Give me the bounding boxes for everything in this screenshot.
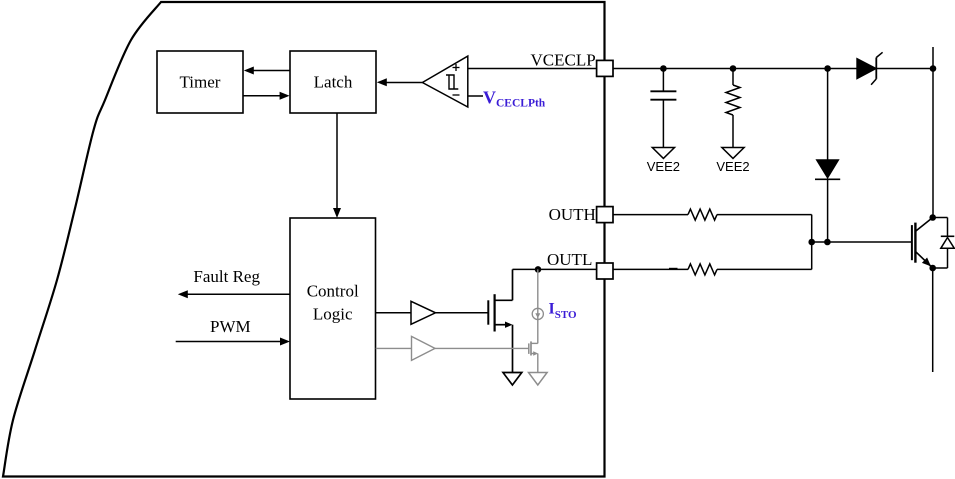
- svg-text:Control: Control: [307, 282, 359, 301]
- svg-text:PWM: PWM: [210, 317, 251, 336]
- svg-text:OUTH: OUTH: [549, 205, 596, 224]
- svg-text:ISTO: ISTO: [549, 301, 577, 322]
- svg-text:Fault Reg: Fault Reg: [193, 267, 260, 286]
- svg-text:OUTL: OUTL: [547, 250, 592, 269]
- svg-text:Timer: Timer: [180, 73, 221, 92]
- svg-text:Latch: Latch: [314, 73, 353, 92]
- svg-text:VEE2: VEE2: [716, 159, 749, 174]
- svg-text:Logic: Logic: [313, 305, 353, 324]
- svg-text:VCECLPth: VCECLPth: [483, 88, 546, 110]
- svg-text:VEE2: VEE2: [647, 159, 680, 174]
- svg-text:VCECLP: VCECLP: [531, 50, 596, 69]
